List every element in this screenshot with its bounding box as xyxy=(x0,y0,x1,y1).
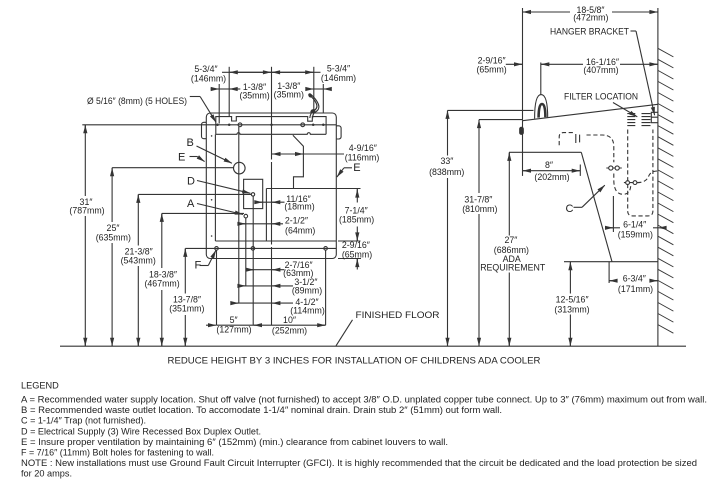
svg-text:E: E xyxy=(353,162,360,174)
svg-text:(159mm): (159mm) xyxy=(618,230,653,240)
dim 8 xyxy=(579,165,581,176)
svg-text:REQUIREMENT: REQUIREMENT xyxy=(480,262,546,272)
svg-text:F: F xyxy=(195,259,202,271)
svg-text:FILTER LOCATION: FILTER LOCATION xyxy=(564,91,638,102)
svg-text:(65mm): (65mm) xyxy=(476,64,506,74)
water inlet elbow (dashed) xyxy=(559,133,573,146)
leader E right xyxy=(344,167,352,169)
bracket holes (5 holes) xyxy=(238,123,242,127)
svg-text:HANGER BRACKET: HANGER BRACKET xyxy=(550,26,629,37)
leader C trap xyxy=(574,206,583,208)
svg-text:(185mm): (185mm) xyxy=(339,215,374,225)
svg-text:33″: 33″ xyxy=(440,156,453,166)
leader hanger bracket xyxy=(631,30,637,32)
drop line from A xyxy=(245,218,247,286)
bubbler (front view) xyxy=(309,95,317,118)
filter ribs xyxy=(627,114,635,126)
svg-text:E = Insure proper ventilation: E = Insure proper ventilation by maintai… xyxy=(21,437,448,447)
svg-text:C: C xyxy=(566,203,574,215)
dim 4-1/2 xyxy=(231,302,294,304)
svg-text:E: E xyxy=(178,152,185,164)
svg-text:D: D xyxy=(187,175,195,187)
svg-text:(252mm): (252mm) xyxy=(272,326,307,336)
svg-text:(116mm): (116mm) xyxy=(345,152,380,162)
svg-text:(810mm): (810mm) xyxy=(462,204,497,214)
leader E left xyxy=(190,156,198,158)
cooler outline (front view) xyxy=(206,113,336,259)
drop line from D xyxy=(252,196,254,325)
svg-text:(89mm): (89mm) xyxy=(292,285,322,295)
dim 7-1/4 xyxy=(338,240,361,242)
svg-text:B = Recommended waste outlet l: B = Recommended waste outlet location. T… xyxy=(21,405,502,415)
svg-text:(18mm): (18mm) xyxy=(284,202,314,212)
drain run (dashed) xyxy=(587,135,614,162)
hanger bracket (front view) xyxy=(216,117,326,135)
svg-text:31-7/8″: 31-7/8″ xyxy=(464,195,492,205)
svg-text:(472mm): (472mm) xyxy=(573,13,608,23)
dim 2-1/2 xyxy=(238,223,284,225)
dim 2-9/16 right xyxy=(338,258,361,260)
svg-text:2-1/2″: 2-1/2″ xyxy=(285,216,308,226)
leader filter location xyxy=(613,103,637,117)
left mounting tab xyxy=(202,122,207,138)
leader for hole size note xyxy=(190,96,200,98)
leader A xyxy=(197,204,243,215)
svg-text:Ø 5/16″ (8mm) (5 HOLES): Ø 5/16″ (8mm) (5 HOLES) xyxy=(87,96,187,107)
svg-text:(313mm): (313mm) xyxy=(554,304,589,314)
dim 6-3/4 xyxy=(608,262,610,283)
svg-text:6-3/4″: 6-3/4″ xyxy=(623,274,646,284)
dim 2-7/16 xyxy=(246,269,285,271)
electrical box D xyxy=(244,179,263,208)
dim 16-1/16 xyxy=(541,63,583,65)
svg-text:LEGEND: LEGEND xyxy=(21,381,59,391)
dim 3-1/2 xyxy=(238,285,294,287)
svg-text:NOTE : New installations must: NOTE : New installations must use Ground… xyxy=(21,458,697,468)
dim 18-5/8 top xyxy=(523,11,571,13)
left vertical dims 31,25,21-3/8,18-3/8,13-7/8 xyxy=(112,167,233,169)
dim 11/16 xyxy=(255,201,284,203)
drop line from left bracket hole xyxy=(238,127,240,303)
svg-text:10″: 10″ xyxy=(283,315,296,325)
leader F xyxy=(200,265,209,267)
svg-text:A = Recommended water supply l: A = Recommended water supply location. S… xyxy=(21,395,707,405)
dim 2-9/16 bubbler xyxy=(506,63,523,65)
svg-text:A: A xyxy=(187,198,195,210)
vertical centerline xyxy=(271,67,273,160)
svg-text:D = Electrical Supply (3) Wire: D = Electrical Supply (3) Wire Recessed … xyxy=(21,426,261,436)
svg-text:(407mm): (407mm) xyxy=(583,65,618,75)
svg-text:REDUCE HEIGHT BY 3 INCHES FOR: REDUCE HEIGHT BY 3 INCHES FOR INSTALLATI… xyxy=(168,355,541,366)
svg-text:(543mm): (543mm) xyxy=(121,256,156,266)
leader finished floor xyxy=(336,320,353,346)
svg-text:FINISHED FLOOR: FINISHED FLOOR xyxy=(356,310,440,321)
dim 31-7/8 xyxy=(479,119,523,121)
leader B xyxy=(197,146,232,163)
svg-text:(171mm): (171mm) xyxy=(618,284,653,294)
hole at D xyxy=(251,193,254,196)
svg-text:(114mm): (114mm) xyxy=(290,305,325,315)
unit side profile xyxy=(523,104,658,120)
small rivet dots xyxy=(211,135,213,137)
svg-text:(146mm): (146mm) xyxy=(191,74,226,84)
waste outlet B xyxy=(234,162,246,174)
wall line xyxy=(657,8,659,346)
svg-text:5-3/4″: 5-3/4″ xyxy=(194,64,217,74)
svg-text:(146mm): (146mm) xyxy=(321,73,356,83)
svg-text:(202mm): (202mm) xyxy=(534,172,569,182)
dim 4-9/16 xyxy=(272,153,344,155)
dim 5-3/4 left xyxy=(222,71,229,73)
dim 1-3/8 right xyxy=(314,88,324,90)
svg-text:(351mm): (351mm) xyxy=(169,304,204,314)
svg-text:(467mm): (467mm) xyxy=(144,279,179,289)
hole at A (water supply) xyxy=(244,214,248,218)
dim 33 xyxy=(448,109,534,111)
bracket hole centerline row xyxy=(82,124,336,126)
svg-text:6-1/4″: 6-1/4″ xyxy=(623,219,646,229)
svg-text:for 20 amps.: for 20 amps. xyxy=(21,468,72,478)
svg-text:(787mm): (787mm) xyxy=(69,205,104,215)
svg-text:8″: 8″ xyxy=(545,160,553,170)
hanger bracket (side) xyxy=(651,112,657,122)
svg-text:(35mm): (35mm) xyxy=(274,89,304,99)
inner access panel xyxy=(214,134,216,241)
svg-text:(35mm): (35mm) xyxy=(239,91,269,101)
svg-text:12-5/16″: 12-5/16″ xyxy=(556,295,589,305)
dim 5-3/4 right xyxy=(272,71,314,73)
finished floor line xyxy=(60,345,686,347)
wall hatching xyxy=(658,48,674,333)
svg-text:B: B xyxy=(187,137,194,149)
bottom bolt hole row F xyxy=(185,247,336,249)
bubbler (side) xyxy=(535,95,548,119)
svg-text:(65mm): (65mm) xyxy=(342,249,372,259)
svg-text:F = 7/16″ (11mm) Bolt holes fo: F = 7/16″ (11mm) Bolt holes for fastenin… xyxy=(21,448,214,458)
dim 5 and 10 bottom xyxy=(217,324,326,326)
svg-text:4-9/16″: 4-9/16″ xyxy=(349,143,377,153)
push button xyxy=(520,127,524,134)
svg-text:(635mm): (635mm) xyxy=(96,232,131,242)
leader D xyxy=(197,181,250,194)
dim 27 ADA xyxy=(508,152,510,235)
dim 12-5/16 xyxy=(569,262,571,294)
trap unions xyxy=(609,166,613,170)
svg-text:C = 1-1/4″ Trap (not furnished: C = 1-1/4″ Trap (not furnished). xyxy=(21,416,146,426)
right mounting tab xyxy=(336,126,341,139)
top dim extension lines xyxy=(228,67,230,117)
filter cartridge (dashed) xyxy=(628,130,653,216)
dim 1-3/8 left xyxy=(219,88,229,90)
svg-text:(127mm): (127mm) xyxy=(216,325,251,335)
svg-text:27″: 27″ xyxy=(504,235,517,245)
svg-text:(838mm): (838mm) xyxy=(429,167,464,177)
dim 6-1/4 xyxy=(612,196,614,232)
svg-text:(64mm): (64mm) xyxy=(285,225,315,235)
